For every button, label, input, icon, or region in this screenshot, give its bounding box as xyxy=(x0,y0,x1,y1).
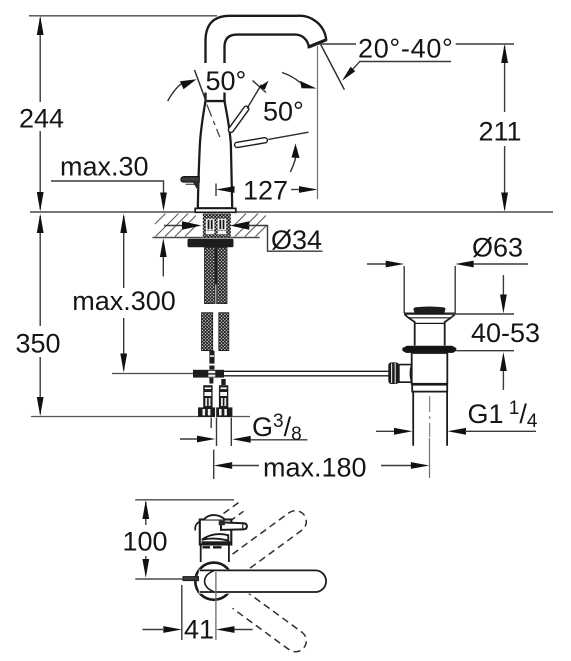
fitting tail stub xyxy=(209,378,213,384)
flex hose upper left xyxy=(205,247,216,303)
pop-up rod vertical bar xyxy=(209,351,214,364)
max.300 top arrowhead xyxy=(120,214,127,233)
50 deg (upper) label mask xyxy=(204,63,249,93)
upper right arc arrowhead xyxy=(300,81,317,89)
100 top reference line xyxy=(135,499,234,501)
dimension 127 right arrowhead with line xyxy=(291,189,300,191)
dimension 350 top arrowhead xyxy=(37,214,44,233)
pop-up bolt between hoses xyxy=(215,247,217,284)
handle horizontal position rod capsule xyxy=(237,140,265,145)
svg-text:50°: 50° xyxy=(263,97,304,127)
plan side lever bar xyxy=(183,577,199,581)
svg-text:100: 100 xyxy=(122,527,167,557)
pivot cross tick xyxy=(253,81,267,93)
svg-text:max.180: max.180 xyxy=(263,453,367,483)
rod extension line to pivot mark xyxy=(247,85,262,109)
svg-text:50°: 50° xyxy=(206,66,247,96)
max.30 lower arrow (up to counter bottom) xyxy=(162,255,164,276)
max.180 left arrowhead and line xyxy=(214,462,233,469)
diam63 extension lines xyxy=(403,266,405,313)
shank slot right xyxy=(218,219,227,230)
max.30 leader underline xyxy=(51,181,164,193)
plan body circle xyxy=(195,563,232,600)
upper right arc toward spout tip line xyxy=(282,73,300,83)
50 deg (upper) arc xyxy=(168,82,185,102)
dimension 211 bottom arrowhead xyxy=(501,193,508,212)
dimension 41 left extension line xyxy=(181,585,183,640)
plan neck xyxy=(200,545,202,562)
svg-text:max.30: max.30 xyxy=(60,152,149,182)
pop-up rod left segment xyxy=(112,373,193,375)
plan body curl top-left xyxy=(195,522,200,531)
countertop hatching left xyxy=(155,214,197,237)
dimension G1 1/4 right arrowhead and line xyxy=(448,428,467,435)
50 deg (lower) arc xyxy=(290,149,296,172)
max.30 upper arrowhead (down to counter top) xyxy=(160,193,167,212)
flex hose upper right xyxy=(217,247,227,303)
dimension 127 left arrowhead xyxy=(216,186,235,193)
dimension 211 vertical line xyxy=(504,46,506,112)
dimension 244 bottom arrowhead xyxy=(37,192,44,212)
svg-text:Ø34: Ø34 xyxy=(271,225,322,255)
flex hose lower left xyxy=(202,313,213,351)
drain gasket flange (black) xyxy=(402,346,456,353)
threaded shank block xyxy=(203,214,231,238)
mounting washer nut xyxy=(188,239,234,248)
dimension 100 vertical line xyxy=(145,502,147,525)
50 deg (upper) arrowhead xyxy=(180,79,197,89)
dimension max.300 vertical line xyxy=(123,216,125,288)
svg-text:Ø63: Ø63 xyxy=(472,233,523,263)
spout aerator face (thick) xyxy=(309,40,327,47)
lever wedge fillet xyxy=(193,182,199,192)
dimension 211 top arrowhead xyxy=(501,44,508,63)
shank white gap squares xyxy=(206,231,215,234)
svg-text:41: 41 xyxy=(184,615,214,645)
20-40 underline xyxy=(359,61,451,63)
41 right arrow xyxy=(216,626,235,633)
drain plug cap xyxy=(413,306,445,312)
svg-text:350: 350 xyxy=(15,329,60,359)
plan spout bar (solid) xyxy=(199,569,326,593)
svg-text:40-53: 40-53 xyxy=(471,318,540,348)
countertop section top line xyxy=(30,211,553,213)
hose end fitting left body xyxy=(203,385,212,407)
bottom reference line (hose ends level) xyxy=(31,416,250,418)
left outlet pipe (short) xyxy=(210,418,212,428)
faucet base plate on counter xyxy=(195,208,236,212)
pin attachment nub xyxy=(219,521,225,526)
20-40 deg leader left xyxy=(319,43,357,45)
plan lever crescent xyxy=(202,534,229,540)
lever slot line xyxy=(186,183,200,185)
swung lever dashes (upper) xyxy=(224,502,244,522)
100 bottom reference line xyxy=(135,578,183,580)
knob connector block xyxy=(399,365,412,383)
drain centre extension line xyxy=(429,438,431,478)
spout tube (riser and bend) xyxy=(206,16,327,101)
neck shading dashes xyxy=(203,546,211,548)
lever nub on body xyxy=(181,177,199,182)
spout bar left cap arc xyxy=(205,571,214,592)
dimension 100 top arrowhead xyxy=(142,500,149,519)
plan view: swung spout dashed (lower) xyxy=(233,591,307,652)
countertop hatching right xyxy=(235,214,267,237)
swivel arc left arrowhead at pivot xyxy=(259,81,269,90)
svg-text:127: 127 xyxy=(243,176,288,206)
dimension 40-53 top reference line xyxy=(446,313,514,315)
pop-up rod right outline to drain xyxy=(224,370,389,372)
dimension 350 vertical line xyxy=(39,216,41,326)
plan body top bump xyxy=(204,515,225,519)
dimension G1 1/4 left line and arrowhead xyxy=(376,430,395,432)
drain tailpipe xyxy=(412,392,414,446)
dimension diam63 right arrowhead and line xyxy=(455,261,474,268)
svg-text:244: 244 xyxy=(19,104,64,134)
dimension diam63 left line and arrowhead xyxy=(367,263,386,265)
dimension 244 top arrowhead xyxy=(37,16,44,35)
dimension 127: center tick xyxy=(215,184,217,197)
tailpipe centreline xyxy=(429,396,431,437)
dimension 41 right extension line xyxy=(215,572,217,640)
faucet body cone xyxy=(198,101,232,208)
dimension 244 vertical line xyxy=(39,18,41,102)
41 left arrow xyxy=(143,629,164,631)
50 deg (lower) arc arrowhead xyxy=(292,144,300,159)
svg-text:20°-40°: 20°-40° xyxy=(358,34,454,64)
dimension max.180 left extension line xyxy=(213,450,215,479)
plan view: swung spout dashed (upper) xyxy=(233,511,307,572)
svg-text:max.300: max.300 xyxy=(72,286,176,316)
dimension diam34 right arrowhead and leader xyxy=(230,221,250,229)
top reference line (spout max height) xyxy=(29,15,217,17)
drain funnel flange xyxy=(404,313,455,315)
shank slot left xyxy=(206,219,215,230)
hose end fitting right stub xyxy=(221,379,225,385)
plan body box xyxy=(200,520,232,545)
dimension 350 bottom arrowhead xyxy=(37,397,44,416)
hose end fitting right body xyxy=(219,385,228,407)
pop-up rod cross fitting xyxy=(193,370,224,378)
spout angle line from tip xyxy=(321,45,345,90)
handle open position rod (tilted capsule) xyxy=(231,109,246,130)
svg-text:211: 211 xyxy=(478,117,521,147)
dimension 40-53 bottom reference line xyxy=(456,350,514,352)
countertop section bottom line xyxy=(153,237,260,239)
hose end nuts block xyxy=(198,407,232,417)
rod thin extension line xyxy=(268,132,308,139)
right outlet pipe G3/8 xyxy=(216,418,218,446)
drain ring xyxy=(412,385,447,392)
20-40 callout diagonal with arrowhead xyxy=(352,62,360,70)
flex hose lower right xyxy=(219,313,229,351)
plan lever pin xyxy=(221,522,247,530)
drain body below gasket xyxy=(412,353,448,384)
dimension G3/8 left line and arrowhead xyxy=(180,438,199,440)
handle axis dash-dot inside body xyxy=(207,105,220,138)
drain side knob (knurled) xyxy=(388,362,399,384)
20-40 right leader to 211 line xyxy=(456,43,514,45)
handle closed-position axis line (solid above body) xyxy=(195,70,207,102)
dimension diam34 left line and arrowhead xyxy=(164,225,184,227)
plan body waist band xyxy=(202,541,232,545)
dimension 40-53 vertical line with arrows xyxy=(502,275,504,295)
dimension G3/8 right arrowhead and underline xyxy=(232,436,251,443)
max.180 right line and arrowhead xyxy=(381,465,412,467)
spout tip extension line xyxy=(317,46,319,199)
max.300 bottom arrowhead xyxy=(120,354,127,373)
dimension 100 bottom arrowhead xyxy=(142,559,149,578)
